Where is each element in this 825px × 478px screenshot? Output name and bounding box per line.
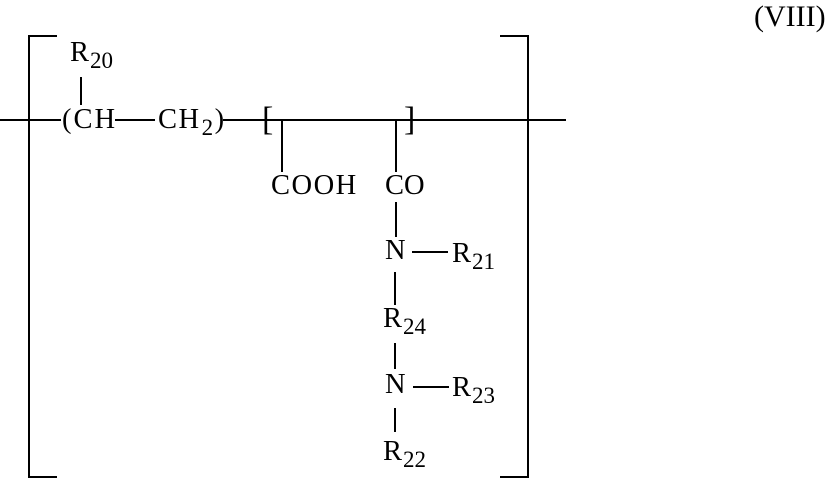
bond N to R23 <box>413 386 449 388</box>
label R21 <box>452 240 495 269</box>
bond CO to N <box>395 202 397 237</box>
bond N to R22 <box>394 408 396 432</box>
label CO <box>385 172 425 201</box>
label (CH <box>62 106 117 135</box>
label CH2) <box>158 106 226 135</box>
left inner bracket [ <box>262 103 273 137</box>
label R24 <box>383 305 426 334</box>
left square bracket <box>28 35 30 478</box>
bond N to R21 <box>412 251 448 253</box>
label COOH <box>271 172 358 201</box>
formula number (VIII) <box>754 2 825 32</box>
right square bracket <box>527 35 529 478</box>
wire: backbone line right segment <box>223 119 566 121</box>
bond R24 to N <box>394 343 396 369</box>
bond R20 to CH <box>80 77 82 105</box>
label R20 <box>70 39 113 68</box>
label R23 <box>452 374 495 403</box>
right inner bracket ] <box>404 103 415 137</box>
bond backbone to CO <box>395 121 397 172</box>
label N (second amine) <box>385 371 406 400</box>
label N (first amine) <box>385 237 406 266</box>
bond backbone to COOH <box>281 121 283 172</box>
label R22 <box>383 438 426 467</box>
bond N to R24 <box>394 272 396 305</box>
wire: backbone line left segment <box>0 119 61 121</box>
bond CH to CH2 <box>115 119 155 121</box>
